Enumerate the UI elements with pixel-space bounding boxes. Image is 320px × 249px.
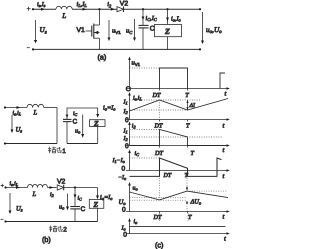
svg-text:L: L (32, 191, 37, 198)
svg-text:V2: V2 (57, 179, 66, 186)
svg-text:−Io: −Io (118, 175, 127, 181)
node output top (199, 8, 201, 10)
current arrow is,iL mode2 (16, 186, 20, 189)
svg-text:0: 0 (122, 206, 126, 213)
current arrow iC,IC (142, 17, 145, 21)
current arrow is,Is (41, 8, 45, 11)
waveform iL trace (130, 99, 229, 112)
wire Z branch bottom (167, 37, 169, 50)
dotted level uV1 (130, 67, 160, 69)
dotted max level W5 (187, 190, 227, 192)
dotted DT vertical W2 (159, 100, 161, 120)
load Z box mode1 (90, 120, 106, 127)
dotted min level W5 (130, 199, 187, 201)
svg-text:0: 0 (122, 166, 126, 173)
current arrow iC mode1 (66, 115, 69, 118)
waveform io trace (130, 225, 226, 227)
tick T W2 (187, 120, 189, 122)
label mode1 (Chinese) (48, 147, 61, 154)
svg-text:O: O (126, 86, 131, 93)
label mode2 (Chinese) (49, 225, 62, 232)
wire C branch top (142, 9, 144, 25)
svg-text:t: t (223, 147, 225, 154)
delta I arrows (186, 100, 188, 110)
dotted I2 level W3 (130, 136, 223, 138)
svg-text:DT: DT (163, 173, 172, 179)
svg-text:t: t (223, 214, 225, 221)
wire top rail (33, 8, 56, 10)
svg-text:iC: iC (73, 111, 78, 117)
svg-text:C: C (150, 26, 155, 33)
tick DT W5 (159, 212, 161, 214)
capacitor C (139, 25, 149, 28)
voltage arrow uV1 (108, 20, 110, 38)
svg-text:is,iL: is,iL (10, 181, 19, 187)
svg-text:Z: Z (164, 27, 170, 36)
axis W3 horizontal (126, 145, 227, 147)
node above Z (166, 8, 168, 10)
svg-text:(c): (c) (155, 241, 163, 249)
svg-text:1: 1 (62, 148, 66, 155)
svg-text:t: t (223, 123, 225, 130)
svg-text:L: L (61, 12, 66, 20)
wire mode1 loop right (56, 108, 58, 144)
svg-text:t: t (224, 236, 226, 243)
wire Z branch top (167, 9, 169, 24)
axis W5 vertical (129, 185, 131, 212)
axis W1 horizontal (126, 88, 227, 90)
axis W4 vertical (129, 152, 131, 171)
node at input bottom (32, 48, 34, 50)
diode V2 (117, 6, 124, 12)
node mode1 bottom-left (4, 142, 6, 144)
wire mode2 top rail (6, 187, 28, 189)
node above C (142, 8, 144, 10)
svg-text:DT: DT (154, 122, 163, 129)
tick T W3 (187, 146, 189, 148)
plus terminal mode2 (1, 184, 4, 187)
node above V1 (98, 8, 100, 10)
wire mode1 Z bottom (97, 127, 99, 144)
waveform uo trace (130, 191, 229, 200)
current arrow i2 mode2 (50, 186, 54, 189)
voltage arrow uo mode1 (82, 115, 84, 135)
dotted I2 level W2 (130, 109, 188, 111)
inductor L mode1 (27, 104, 44, 107)
wire mode1 CZ loop top (67, 108, 98, 119)
svg-text:T: T (188, 214, 192, 221)
load Z box mode2 (89, 200, 104, 209)
voltage arrow uo mode2 (67, 194, 69, 208)
wire mode2 bottom rail (6, 221, 98, 223)
node mode2 top-left (4, 186, 6, 188)
svg-text:L: L (33, 110, 38, 117)
tick DT W4 (159, 171, 161, 173)
axis W2 vertical (129, 95, 131, 120)
wire bottom rail (33, 48, 200, 50)
waveform iC trace (130, 158, 222, 176)
voltage arrow Us mode1 (11, 115, 13, 130)
tick T W4 (187, 171, 189, 173)
dotted I1 level W3 (130, 129, 160, 131)
dotted Uo level W5 (130, 196, 187, 198)
svg-text:is,Is: is,Is (37, 2, 46, 8)
svg-text:C: C (73, 119, 78, 126)
node mode1 top-left (4, 106, 6, 108)
tick T W5 (187, 212, 189, 214)
current arrow io,Io (166, 18, 169, 22)
dotted peak level W4 (130, 157, 160, 159)
svg-text:V2: V2 (120, 1, 129, 8)
axis W5 horizontal (126, 211, 227, 213)
svg-text:I1: I1 (123, 129, 128, 135)
svg-text:i2: i2 (50, 192, 54, 198)
node mode2 above C (74, 186, 76, 188)
tick T W1 (187, 89, 189, 91)
current arrow into Z mode1 (96, 114, 99, 118)
current arrow i2 (111, 8, 115, 11)
svg-text:Z: Z (93, 119, 99, 128)
svg-text:DT: DT (152, 92, 161, 99)
svg-text:0: 0 (125, 143, 129, 150)
svg-text:iC: iC (78, 196, 83, 202)
dotted DT vertical W5 (159, 178, 161, 199)
wire mode2 Z bottom (97, 208, 99, 221)
svg-text:uo: uo (133, 186, 139, 192)
svg-text:t: t (223, 173, 225, 180)
svg-text:2: 2 (63, 227, 67, 234)
source voltage arrow Us (35, 20, 37, 41)
svg-text:DT: DT (154, 150, 163, 157)
wire mode2 C branch (74, 188, 76, 207)
axis W3 vertical (129, 124, 131, 146)
tick DT W2 (159, 120, 161, 122)
svg-text:t: t (225, 91, 227, 98)
dotted T below axis W5 (187, 213, 189, 222)
axis W6 vertical (129, 221, 131, 234)
wire mode1 loop top (5, 107, 27, 109)
svg-text:is,iL: is,iL (13, 111, 22, 117)
svg-text:T: T (185, 92, 189, 99)
svg-text:iC: iC (135, 151, 140, 157)
svg-text:(b): (b) (42, 235, 51, 244)
minus terminal mode2 (1, 218, 4, 220)
svg-text:I2: I2 (123, 136, 129, 142)
svg-text:I1: I1 (123, 99, 128, 105)
node mode2 bottom-left (4, 220, 6, 222)
current arrow is,i mode1 (17, 106, 21, 109)
axis W4 horizontal (126, 170, 227, 172)
tick DT W1 (159, 89, 161, 91)
waveform uV1 trace (160, 68, 188, 89)
voltage arrow uC (134, 19, 136, 38)
svg-text:V1: V1 (77, 27, 86, 34)
arrow up below T W5 (186, 200, 188, 211)
svg-text:(a): (a) (98, 53, 107, 62)
inductor L mode2 (28, 184, 48, 187)
waveform uV1 second pulse (220, 73, 225, 89)
wire C branch bottom (142, 28, 144, 50)
tick DT W3 (159, 146, 161, 148)
arrow down at T W5 (186, 178, 188, 191)
output voltage arrow uo,Uo (202, 12, 204, 41)
axis W1 vertical (129, 59, 131, 89)
load Z box (155, 25, 182, 37)
wire mode1 C bottom (66, 122, 68, 144)
current arrow into Z mode2 (96, 196, 99, 200)
svg-text:is,iL: is,iL (133, 96, 142, 102)
svg-text:0: 0 (125, 117, 129, 124)
capacitor C mode2 (70, 207, 80, 209)
dotted I1 level W2 (130, 99, 201, 101)
current arrow iC mode2 (74, 195, 77, 199)
diode V2 mode2 (57, 185, 64, 191)
voltage arrow Us mode2 (9, 193, 11, 211)
wire mode1 loop bottom (5, 143, 57, 145)
svg-text:C: C (81, 206, 86, 213)
axis W6 horizontal (126, 233, 227, 235)
svg-text:ΔI: ΔI (189, 103, 196, 109)
svg-text:DT: DT (153, 214, 162, 221)
plus terminal (27, 7, 31, 11)
wire mode2 C bottom (74, 209, 76, 222)
wire mode1 CZ loop bottom (67, 143, 98, 145)
waveform i2 trace (130, 130, 227, 146)
minus terminal (27, 47, 30, 49)
svg-text:T: T (191, 150, 195, 157)
capacitor C mode1 (63, 119, 72, 121)
svg-text:I2: I2 (123, 109, 129, 115)
node output bottom (199, 48, 201, 50)
node at input top (32, 8, 34, 10)
svg-text:0: 0 (123, 231, 127, 238)
dotted DT below axis W5 (159, 213, 161, 222)
current arrow iL (83, 8, 87, 11)
svg-text:T: T (186, 122, 190, 129)
svg-text:Z: Z (93, 200, 99, 209)
transistor V1 (MOSFET) (86, 9, 100, 49)
wire mode2 Z branch (97, 188, 99, 197)
axis W2 horizontal (126, 119, 227, 121)
svg-text:I1−Io: I1−Io (112, 158, 126, 164)
inductor L (56, 6, 72, 9)
